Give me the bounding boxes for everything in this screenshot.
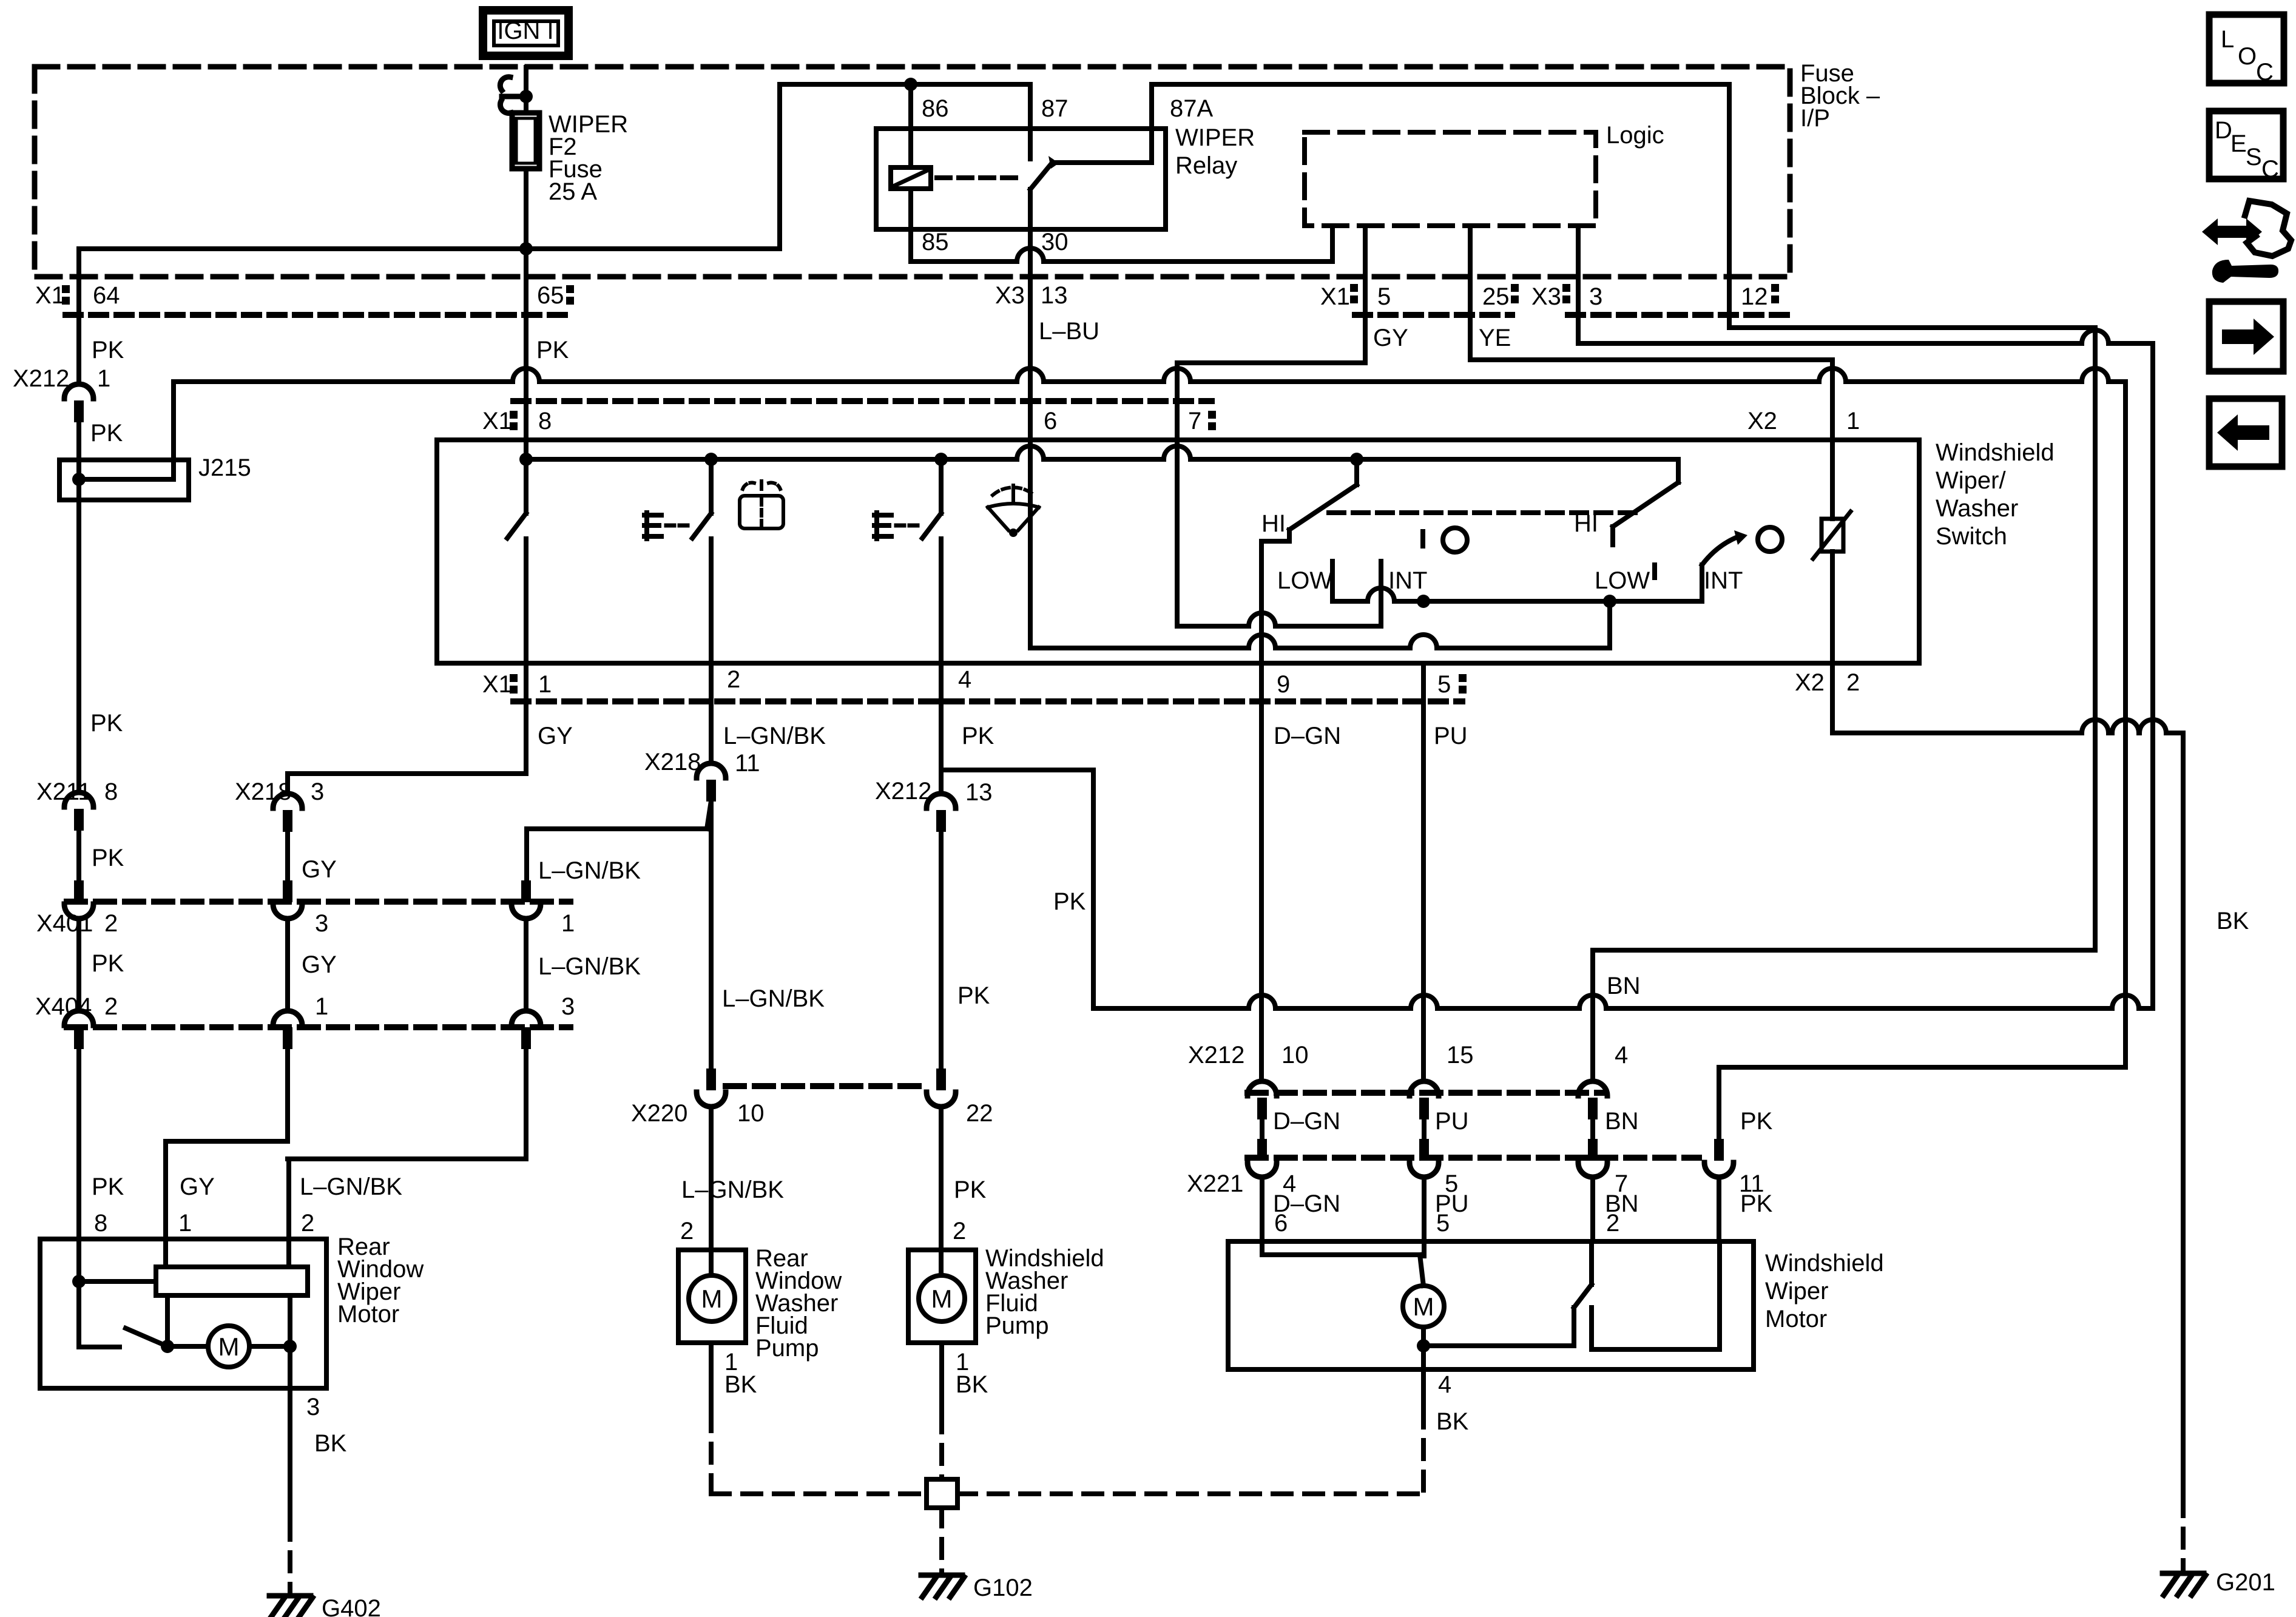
switch detent circle right <box>1758 527 1782 552</box>
windshield wiper motor label <box>1765 1250 1884 1332</box>
wire label GY motor <box>180 1173 215 1200</box>
svg-text:E: E <box>2230 130 2247 157</box>
pin label motor 3 <box>306 1394 320 1420</box>
inline connector X401 pin 3 <box>273 880 302 919</box>
rear pump M circle <box>689 1250 735 1322</box>
logic pin 5 lead GY <box>1363 226 1368 363</box>
connector row logic pins dashed line <box>1355 312 1793 318</box>
wire PK X404 to motor <box>76 1048 81 1239</box>
wire PK to washer pump <box>939 1107 944 1250</box>
connector separator after 25 <box>1511 284 1519 303</box>
wire riser 87A right <box>2093 328 2098 950</box>
inline connector X212 pin 4 <box>1578 1081 1607 1119</box>
svg-text:X404: X404 <box>35 993 92 1020</box>
svg-text:BN: BN <box>1605 1108 1639 1135</box>
wire label BK washer pump <box>956 1371 988 1398</box>
rear window wiper motor box <box>40 1239 326 1388</box>
junction dot J215 <box>72 473 86 486</box>
wire YE logic25 jog <box>1470 357 1832 362</box>
ground G102 <box>921 1575 1033 1601</box>
svg-text:87A: 87A <box>1170 95 1213 122</box>
relay pin label 86 <box>922 95 949 122</box>
svg-text:O: O <box>2238 43 2257 70</box>
svg-text:BK: BK <box>724 1371 757 1398</box>
svg-text:PK: PK <box>1740 1108 1773 1135</box>
connector label X212 1 <box>13 365 110 392</box>
wire LGN switch pin2 drop <box>709 663 714 763</box>
svg-text:1: 1 <box>178 1210 192 1237</box>
inline connector X220 pin 22 <box>927 1068 956 1107</box>
switch wiper common y991 <box>1332 588 1702 601</box>
wire label PK pump <box>954 1176 987 1203</box>
junction dot fuse output <box>519 242 533 255</box>
rear motor junction dots <box>161 1340 297 1353</box>
bus junction dots <box>519 453 1363 466</box>
svg-text:3: 3 <box>311 778 324 805</box>
pin label motor 2 <box>301 1210 314 1237</box>
relay pin label 87 <box>1041 95 1069 122</box>
connector separator X1 top <box>510 411 518 430</box>
wire label L-GN/BK under 11 <box>722 985 825 1012</box>
connector label X212 mid <box>1188 1042 1628 1068</box>
relay coil to armature dashed link <box>937 175 1024 180</box>
relay coil <box>891 167 931 189</box>
svg-text:BK: BK <box>956 1371 988 1398</box>
wire label PK low <box>92 950 124 977</box>
logic pin 25 lead YE <box>1468 226 1473 360</box>
wiper motor M circle <box>1403 1286 1444 1327</box>
svg-text:HI: HI <box>1574 510 1598 537</box>
ground G402 <box>269 1595 381 1617</box>
pin label X401-3 <box>315 910 328 937</box>
svg-text:Washer: Washer <box>1936 495 2018 522</box>
svg-text:D–GN: D–GN <box>1274 723 1341 749</box>
wire label D-GN top <box>1274 723 1341 749</box>
relay label WIPER Relay <box>1175 124 1255 179</box>
svg-text:1: 1 <box>538 671 552 698</box>
fuse block dashed box Fuse Block - I/P <box>35 67 1790 277</box>
connector row X1 64/65 dashed line <box>66 312 570 318</box>
wire label L-GN/BK pin2 <box>723 723 826 749</box>
svg-text:X218: X218 <box>644 749 701 775</box>
wire pin12 jog y540 <box>1729 325 2095 330</box>
junction dot at ignition feed <box>519 90 533 103</box>
connector separator X1 <box>62 285 70 305</box>
svg-text:85: 85 <box>922 229 949 255</box>
wire PK X401 to X404 <box>76 919 81 1011</box>
splice J215 label <box>198 454 251 481</box>
wire D-GN switch pin9 <box>1259 663 1264 1081</box>
pin label 65 <box>537 282 564 309</box>
svg-text:IGN I: IGN I <box>497 18 553 44</box>
svg-text:C: C <box>2261 156 2279 183</box>
wiper motor park switch <box>1423 1284 1592 1346</box>
wire D-GN to motor <box>1260 1177 1264 1241</box>
svg-text:L–GN/BK: L–GN/BK <box>722 985 825 1012</box>
svg-text:X2: X2 <box>1795 669 1825 696</box>
logic pin lead to relay 85 <box>1330 226 1335 262</box>
inline connector X218 pin 11 <box>697 763 726 802</box>
pin label X404-1 <box>315 993 328 1020</box>
svg-text:J215: J215 <box>198 454 251 481</box>
svg-text:4: 4 <box>958 666 971 693</box>
svg-text:GY: GY <box>302 856 337 883</box>
svg-text:PK: PK <box>962 723 994 749</box>
inline connector X404 pin 1 <box>273 1011 302 1049</box>
wire PK to motor <box>1717 1177 1721 1241</box>
svg-text:PK: PK <box>92 950 124 977</box>
junction dot pin6 riser <box>1603 595 1616 608</box>
svg-text:M: M <box>931 1284 953 1313</box>
svg-text:BK: BK <box>2217 908 2249 934</box>
svg-text:C: C <box>2256 59 2274 86</box>
switch INT bar left <box>1379 561 1383 626</box>
pin label 7 <box>1188 408 1201 434</box>
switch mechanical link dashed <box>1329 510 1638 515</box>
relay box WIPER Relay <box>876 129 1166 229</box>
connector label X220 <box>631 1100 765 1127</box>
svg-text:GY: GY <box>302 951 337 978</box>
rear motor pin 3 wire <box>288 1346 292 1521</box>
wire label PK branch <box>1053 888 1086 915</box>
washer fluid pump box <box>908 1250 976 1343</box>
wire BN y1566 <box>1593 948 2095 953</box>
wiper motor BN internal <box>1589 1241 1594 1284</box>
svg-text:X2: X2 <box>1747 408 1777 434</box>
wire IGN I feed <box>524 67 528 113</box>
rear motor LGN internal <box>289 1239 290 1346</box>
connector label X1 logic <box>1320 283 1350 310</box>
wire GY X401 to X404 <box>285 919 290 1011</box>
svg-text:1: 1 <box>1846 408 1860 434</box>
wire X218-11 splice jog <box>527 801 711 881</box>
wire LGN X404 jog to motor <box>288 1048 526 1239</box>
rear motor GY internal <box>166 1239 167 1346</box>
switch blade pin2 <box>692 459 711 663</box>
wire PK jog line y1662 <box>1093 995 2153 1008</box>
windshield wiper/washer switch box <box>437 440 1919 663</box>
wire X1-6 inside switch <box>1030 440 1610 648</box>
washer pump label <box>985 1245 1104 1339</box>
switch LOW label right <box>1595 567 1650 594</box>
wire label L-BU <box>1039 318 1099 345</box>
wire GY switch pin1 drop <box>288 663 526 794</box>
wire BK dashed to G402 <box>288 1521 292 1593</box>
wire label PK left top <box>536 337 569 363</box>
wire riser pin3 right <box>2150 343 2155 1008</box>
wire J215 branch <box>79 382 174 479</box>
wire relay30 L-BU drop <box>1028 229 1033 440</box>
connector label X218 11 <box>644 749 760 777</box>
svg-text:25: 25 <box>1482 283 1510 310</box>
svg-text:X1: X1 <box>1320 283 1350 310</box>
svg-text:L–BU: L–BU <box>1039 318 1099 345</box>
pin label rear pump 2 <box>680 1218 694 1244</box>
wire GY drop to X1-7 <box>1175 363 1180 626</box>
wire relay top feed y139 <box>780 82 1030 87</box>
inline connector X404 pin 3 <box>512 1011 541 1049</box>
svg-text:4: 4 <box>1438 1371 1451 1398</box>
wire GY logic5 jog <box>1177 360 1365 365</box>
rear window washer fluid pump box <box>678 1250 746 1343</box>
rear motor park bar <box>156 1267 308 1295</box>
svg-text:S: S <box>2246 144 2262 170</box>
svg-text:PK: PK <box>954 1176 987 1203</box>
svg-text:Wiper/: Wiper/ <box>1936 467 2006 494</box>
switch label <box>1936 439 2055 550</box>
svg-text:HI: HI <box>1261 510 1286 537</box>
connector separator X1 bottom <box>510 674 518 694</box>
wire label PK pin4 <box>962 723 994 749</box>
connector separator after 65 <box>566 285 574 305</box>
svg-text:X221: X221 <box>1187 1170 1243 1197</box>
rear motor switch blade <box>79 1328 167 1347</box>
connector separator X1 logic <box>1350 284 1358 303</box>
wire label BN low <box>1605 1190 1639 1217</box>
pin label X404-3 <box>561 993 575 1020</box>
svg-text:L–GN/BK: L–GN/BK <box>538 953 641 980</box>
wire BK dashed to G201 <box>2181 1497 2186 1571</box>
connector label X211 8 <box>36 778 118 805</box>
svg-text:2: 2 <box>680 1218 694 1244</box>
svg-text:G201: G201 <box>2216 1569 2275 1596</box>
wire label L-GN/BK mid <box>538 857 641 884</box>
svg-text:5: 5 <box>1437 671 1451 698</box>
wire label PU top <box>1434 723 1468 749</box>
wire PU X212 to X221 <box>1422 1119 1427 1139</box>
connector label X3 logic <box>1531 283 1561 310</box>
pin label 1 <box>538 671 552 698</box>
wire main feed bus y410 <box>79 246 780 251</box>
wire X2-2 to ground run <box>1832 663 2183 1497</box>
svg-text:X1: X1 <box>35 282 65 309</box>
logic pin 3 lead <box>1576 226 1581 343</box>
inline connector X221 pin 11 <box>1704 1139 1734 1177</box>
svg-text:PK: PK <box>92 845 124 871</box>
wire label PK right col <box>1740 1108 1773 1135</box>
svg-text:D: D <box>2215 117 2232 144</box>
wire LGN X401 to X404 <box>524 919 528 1011</box>
svg-text:Pump: Pump <box>755 1335 819 1362</box>
switch HI label right <box>1574 510 1598 537</box>
svg-text:PK: PK <box>957 982 990 1009</box>
logic box dashed <box>1305 132 1596 226</box>
svg-text:3: 3 <box>306 1394 320 1420</box>
wire relay 85 to logic y431 <box>911 248 1332 262</box>
wire label GY mid <box>302 856 337 883</box>
svg-text:PK: PK <box>1053 888 1086 915</box>
wire label GY logic pin5 <box>1373 325 1408 351</box>
switch bottom connector row X1 dashed <box>513 698 1462 704</box>
inline connector X401 pin 1 <box>512 880 541 919</box>
wire label PK mid <box>92 845 124 871</box>
pin label motor 5 <box>1436 1210 1450 1237</box>
icon box left arrow <box>2209 399 2282 467</box>
svg-text:LOW: LOW <box>1277 567 1332 594</box>
svg-text:L–GN/BK: L–GN/BK <box>300 1173 402 1200</box>
wire riser to relay feed <box>777 84 782 249</box>
svg-text:2: 2 <box>727 666 740 693</box>
wire label PK below X212-1 <box>90 420 123 447</box>
pin label 13 <box>1041 282 1068 309</box>
wire label GY low <box>302 951 337 978</box>
svg-text:30: 30 <box>1041 229 1069 255</box>
svg-text:D–GN: D–GN <box>1273 1108 1340 1135</box>
svg-text:10: 10 <box>1281 1042 1309 1068</box>
svg-text:87: 87 <box>1041 95 1069 122</box>
wire PK pin 64 drop <box>76 249 81 384</box>
connector label X2 1 <box>1747 408 1860 434</box>
switch HI contact left <box>1261 459 1357 663</box>
svg-text:6: 6 <box>1044 408 1057 434</box>
icon rear window washer <box>740 481 783 528</box>
switch tick right <box>1652 565 1657 578</box>
connector separator after X3 <box>1562 284 1570 303</box>
switch LOW label left <box>1277 567 1332 594</box>
svg-text:6: 6 <box>1274 1210 1288 1237</box>
wire PK pin 65 drop <box>524 249 528 384</box>
rear window wiper motor label <box>337 1234 424 1328</box>
inline connector X212 pin 13 <box>927 794 956 832</box>
svg-text:PK: PK <box>92 337 124 363</box>
wiper motor M bottom <box>1417 1327 1430 1352</box>
pin label X401-2 <box>104 910 118 937</box>
inline connector X221 pin 4 <box>1248 1139 1277 1177</box>
svg-text:Windshield: Windshield <box>1936 439 2055 466</box>
switch top connector row X1 dashed <box>513 398 1212 404</box>
svg-text:Motor: Motor <box>337 1301 399 1328</box>
pin label X220 22 <box>966 1100 993 1127</box>
inline connector X212 pin 15 <box>1410 1081 1439 1119</box>
svg-text:X212: X212 <box>1188 1042 1244 1068</box>
switch blade pin1 <box>507 440 526 663</box>
connector row X212 mid dashed <box>1248 1090 1602 1096</box>
svg-text:22: 22 <box>966 1100 993 1127</box>
icon pointer and wrench <box>2202 201 2291 283</box>
inline connector X211 pin 8 <box>64 792 93 831</box>
wire LGN X218-11 down <box>709 801 714 1068</box>
connector label X218 3 <box>235 778 324 805</box>
wire PK y1759 <box>1719 1067 2125 1139</box>
svg-text:PU: PU <box>1435 1108 1469 1135</box>
switch LOW bar left <box>1330 561 1335 601</box>
wire label L-GN/BK low <box>538 953 641 980</box>
svg-text:GY: GY <box>180 1173 215 1200</box>
svg-text:M: M <box>701 1284 723 1313</box>
svg-text:YE: YE <box>1479 325 1511 351</box>
wire J215 PK distribution y629 <box>174 368 2125 382</box>
wire PU switch pin5 <box>1421 663 1426 1081</box>
switch rheostat <box>1813 440 1851 663</box>
switch tick left <box>1420 532 1425 546</box>
wire BK dashed to wiper motor <box>957 1409 1423 1494</box>
svg-text:PK: PK <box>90 710 123 737</box>
pin label motor 6 <box>1274 1210 1288 1237</box>
inline connector X404 pin 2 <box>64 1011 93 1049</box>
svg-text:4: 4 <box>1615 1042 1628 1068</box>
pin label 2 <box>727 666 740 693</box>
wire X212-13 branch <box>941 770 1093 1008</box>
wire label PK above X211 <box>90 710 123 737</box>
wire BK below square <box>939 1508 944 1573</box>
svg-text:X3: X3 <box>995 282 1025 309</box>
connector label X3 <box>995 282 1025 309</box>
wire rear pump BK <box>711 1343 927 1494</box>
svg-text:PK: PK <box>90 420 123 447</box>
wiper motor PK internal <box>1592 1241 1720 1349</box>
icon windshield washer <box>988 485 1039 537</box>
fuse F2 label <box>549 111 628 205</box>
pin label motor 4 <box>1438 1371 1451 1398</box>
switch blade pin4 <box>922 459 941 663</box>
wire label BN <box>1607 973 1641 999</box>
rear motor M circle <box>167 1326 290 1367</box>
connector label X401 <box>36 910 93 937</box>
svg-text:1: 1 <box>315 993 328 1020</box>
wire PK switch pin4 drop <box>939 663 944 794</box>
relay 30 lead <box>1028 189 1033 229</box>
svg-text:7: 7 <box>1188 408 1201 434</box>
svg-text:BK: BK <box>314 1430 347 1457</box>
svg-text:X212: X212 <box>13 365 69 392</box>
windshield wiper motor box <box>1228 1241 1754 1369</box>
svg-text:5: 5 <box>1436 1210 1450 1237</box>
svg-text:2: 2 <box>1846 669 1860 696</box>
rear pump label <box>755 1245 842 1362</box>
inline connector X212 pin 1 <box>64 384 93 422</box>
ignition switch contact symbol <box>500 77 522 113</box>
svg-text:13: 13 <box>965 779 993 806</box>
pin label 8 <box>538 408 552 434</box>
wire label L-GN/BK pump <box>681 1176 784 1203</box>
connector label X2 2 <box>1795 669 1860 696</box>
svg-text:2: 2 <box>104 993 118 1020</box>
svg-text:PK: PK <box>1740 1190 1773 1217</box>
svg-text:M: M <box>1413 1292 1434 1321</box>
svg-text:PK: PK <box>92 1173 124 1200</box>
svg-text:BK: BK <box>1436 1408 1469 1435</box>
wire label PK motor <box>92 1173 124 1200</box>
svg-text:WIPER: WIPER <box>1175 124 1255 151</box>
relay 85 lead <box>908 189 913 262</box>
washer pump M circle <box>919 1250 965 1322</box>
svg-text:Relay: Relay <box>1175 152 1237 179</box>
pin label 4 <box>958 666 971 693</box>
inline connector X212 pin 10 <box>1248 1081 1277 1119</box>
relay pin label 30 <box>1041 229 1069 255</box>
wire YE drop to X2-1 <box>1830 360 1835 440</box>
inline connector X221 pin 5 <box>1410 1139 1439 1177</box>
wiper motor D-GN internal <box>1262 1241 1420 1255</box>
wire riser J215 right <box>2123 382 2128 1067</box>
switch feed bus y757 <box>526 446 1678 459</box>
rear motor PK internal <box>72 1239 156 1347</box>
svg-text:X1: X1 <box>482 408 512 434</box>
svg-text:8: 8 <box>104 778 118 805</box>
wire GY X218 to X401 <box>285 832 290 881</box>
wire PU to motor <box>1422 1177 1427 1241</box>
wiper motor pin 4 wire <box>1421 1346 1426 1409</box>
junction dot relay 86 feed <box>904 78 917 91</box>
connector separator after 12 <box>1771 284 1779 303</box>
pin label 12 <box>1741 283 1768 310</box>
connector label X221 <box>1187 1170 1764 1197</box>
logic label <box>1606 122 1664 149</box>
pin label rear pump 1 <box>724 1349 738 1376</box>
wire PK X1-8 drop <box>524 384 528 440</box>
svg-text:L: L <box>2221 26 2234 53</box>
svg-text:Wiper: Wiper <box>1765 1278 1828 1305</box>
